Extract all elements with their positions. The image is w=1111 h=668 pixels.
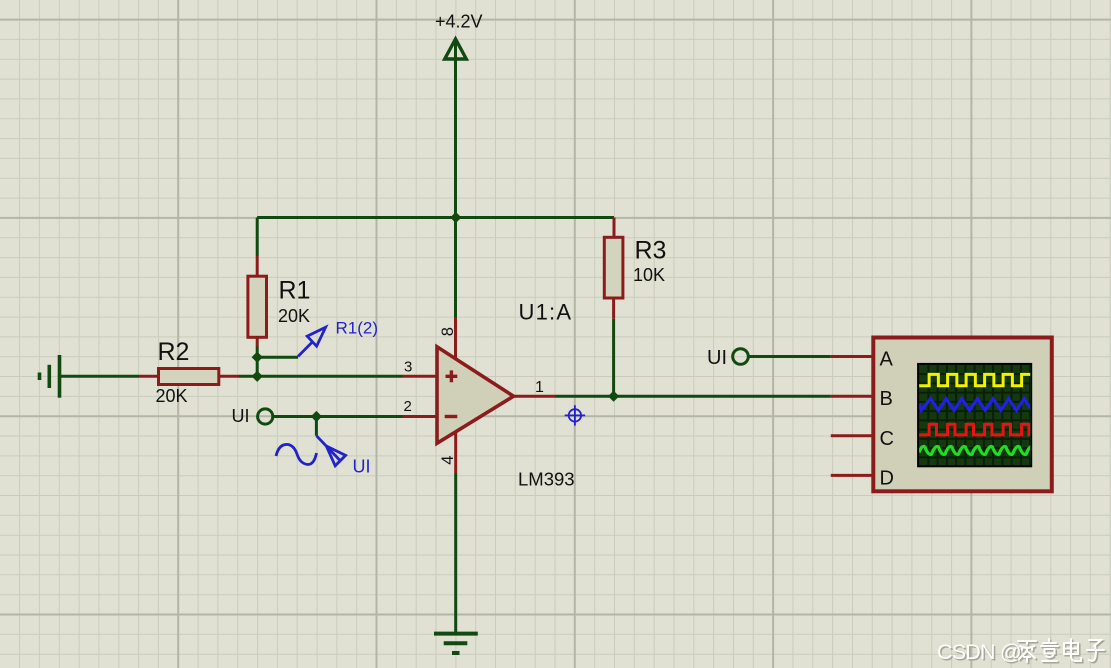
svg-text:C: C bbox=[880, 428, 894, 450]
svg-text:20K: 20K bbox=[278, 306, 310, 326]
svg-text:D: D bbox=[880, 468, 894, 490]
svg-text:UI: UI bbox=[353, 457, 371, 477]
svg-text:4: 4 bbox=[439, 456, 457, 465]
svg-text:UI: UI bbox=[232, 406, 250, 426]
svg-text:CSDN @: CSDN @ bbox=[937, 640, 1021, 664]
svg-text:B: B bbox=[880, 388, 893, 410]
svg-text:R1(2): R1(2) bbox=[336, 319, 379, 338]
svg-text:R2: R2 bbox=[158, 338, 190, 366]
svg-text:LM393: LM393 bbox=[518, 469, 575, 490]
svg-text:U1:A: U1:A bbox=[519, 300, 573, 325]
svg-text:1: 1 bbox=[535, 379, 544, 396]
svg-text:3: 3 bbox=[404, 359, 412, 376]
svg-text:R1: R1 bbox=[279, 276, 311, 304]
svg-text:R3: R3 bbox=[635, 236, 667, 264]
svg-text:UI: UI bbox=[707, 347, 727, 369]
svg-text:8: 8 bbox=[439, 327, 457, 336]
svg-text:A: A bbox=[880, 349, 894, 371]
svg-text:+4.2V: +4.2V bbox=[435, 12, 483, 32]
svg-text:2: 2 bbox=[404, 398, 412, 415]
svg-text:20K: 20K bbox=[156, 386, 188, 406]
svg-text:10K: 10K bbox=[633, 265, 665, 285]
